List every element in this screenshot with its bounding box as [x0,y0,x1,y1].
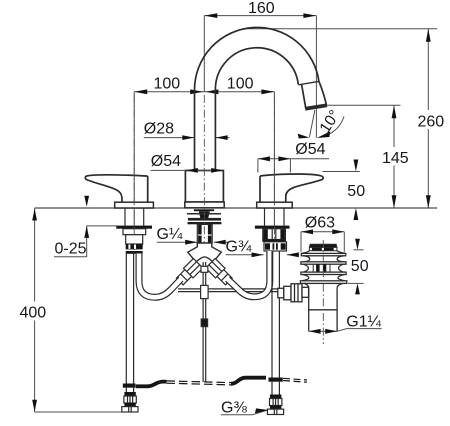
svg-text:260: 260 [418,114,445,131]
svg-text:G⅜: G⅜ [221,400,247,417]
svg-text:50: 50 [351,258,369,275]
svg-text:G1¼: G1¼ [346,313,381,330]
svg-text:Ø63: Ø63 [305,215,335,232]
svg-text:Ø54: Ø54 [151,153,181,170]
svg-text:100: 100 [154,76,181,93]
svg-text:145: 145 [382,150,409,167]
svg-text:G¾: G¾ [226,238,252,255]
svg-text:400: 400 [20,304,47,321]
svg-text:50: 50 [347,183,365,200]
svg-text:Ø54: Ø54 [295,141,325,158]
svg-text:G¼: G¼ [157,226,183,243]
svg-text:0-25: 0-25 [55,240,87,257]
svg-text:160: 160 [248,0,275,17]
svg-text:100: 100 [227,76,254,93]
svg-text:Ø28: Ø28 [144,120,174,137]
